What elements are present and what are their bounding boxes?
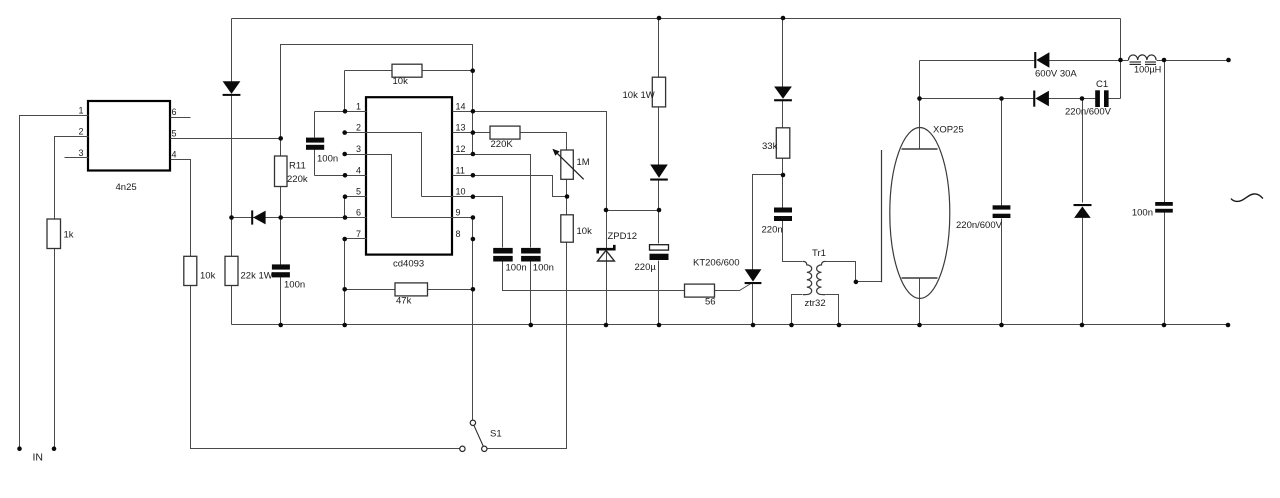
junction R11 bottom / diode row xyxy=(278,215,283,220)
svg-text:100n: 100n xyxy=(533,263,554,274)
capacitor 220n (x=783, trigger) xyxy=(774,208,792,222)
pin numbers 4n25 right xyxy=(172,107,177,159)
wire: 47k row y=289.3 xyxy=(345,289,473,291)
label 10k left xyxy=(200,271,216,282)
wire: 4n25 pin3 open stub xyxy=(65,157,89,159)
wire: 10k feedback row y=70.7 xyxy=(345,71,473,112)
junction pin1 xyxy=(343,109,348,114)
svg-text:100n: 100n xyxy=(506,263,527,274)
svg-text:14: 14 xyxy=(456,101,466,111)
wire: R11/100n column x=280.7 to bottom bus xyxy=(280,139,282,325)
diode D5 600V 30A (row1, pointing left) xyxy=(1034,52,1049,68)
wire: right rail pins 9-8 down to 47k and switch S1 xyxy=(472,218,474,421)
svg-text:9: 9 xyxy=(456,208,461,218)
junction 100n x=530.8 at ground bus xyxy=(529,323,534,328)
label 100uH xyxy=(1134,64,1161,74)
pin numbers 4n25 left xyxy=(78,105,83,157)
junction pin13 xyxy=(471,130,476,135)
junction 100n at ground bus x=280.7 xyxy=(278,323,283,328)
transformer Tr1 secondary winding xyxy=(817,261,826,294)
junction 1M wiper node xyxy=(565,194,570,199)
svg-text:3: 3 xyxy=(78,148,83,158)
svg-text:1M: 1M xyxy=(577,157,590,168)
svg-text:12: 12 xyxy=(456,144,466,154)
svg-text:6: 6 xyxy=(172,107,177,117)
switch S1 xyxy=(460,420,487,451)
wire: pin14 row to ZPD12 rail xyxy=(453,112,607,211)
label 100n output xyxy=(1132,208,1153,219)
svg-text:220n/600V: 220n/600V xyxy=(956,220,1003,231)
capacitor C1 220n/600V (vertical plates) xyxy=(1095,90,1108,107)
svg-text:100n: 100n xyxy=(1132,208,1153,219)
flash tube XOP25 electrodes xyxy=(902,149,938,278)
svg-text:47k: 47k xyxy=(396,296,412,307)
junction left rail at ground bus xyxy=(342,323,347,328)
junction pin4 xyxy=(343,173,348,178)
wire: 56 resistor to thyristor gate xyxy=(715,283,753,291)
svg-text:1: 1 xyxy=(78,105,83,115)
junction 33k bottom / thyristor branch xyxy=(781,173,786,178)
svg-text:100n: 100n xyxy=(317,153,338,164)
wire: 10k 1W column x=659 top bus to ZPD node xyxy=(658,19,660,211)
svg-text:4: 4 xyxy=(172,150,177,160)
svg-text:220k: 220k xyxy=(287,174,308,185)
label 220u xyxy=(635,262,657,273)
junction 10k 1W at top bus xyxy=(657,16,662,21)
wire: pin12 stub to 100n drop x=530.8 xyxy=(453,155,531,248)
resistor 10k (top feedback) xyxy=(392,64,422,77)
svg-text:220K: 220K xyxy=(491,139,514,150)
svg-text:10: 10 xyxy=(456,187,466,197)
junction pin3 xyxy=(342,152,347,157)
svg-text:100n: 100n xyxy=(284,280,305,291)
junction 220n/600V top xyxy=(999,96,1004,101)
wire: diode row pin6 level y=217.5 xyxy=(232,217,367,219)
junction pin7 xyxy=(342,237,347,242)
resistor 10k (below 1M pot) xyxy=(561,215,574,242)
junction pin2 xyxy=(342,130,347,135)
wire: pin3 stub and through-box link to pin9 xyxy=(345,155,392,218)
label 220n xyxy=(762,225,783,236)
junction pin11 xyxy=(471,173,476,178)
wire: pin13 stub xyxy=(453,132,491,134)
label S1 xyxy=(490,429,502,440)
svg-text:220n/600V: 220n/600V xyxy=(1065,107,1112,118)
capacitor 220n/600V (x=1001.5) xyxy=(993,205,1011,218)
wire: Tr1 secondary bottom to bus xyxy=(826,295,839,325)
label Tr1 xyxy=(812,248,826,259)
wire: pin5-pin6 tie on left rail xyxy=(345,197,367,218)
label 220n/600V lamp cap xyxy=(956,220,1003,231)
svg-text:10k 1W: 10k 1W xyxy=(623,90,655,101)
wire: row2 diode / C1 line y=98.5 xyxy=(920,98,1121,100)
wire: Tr1 primary bottom to bus xyxy=(792,295,803,325)
svg-text:C1: C1 xyxy=(1096,79,1108,90)
wire: bottom ground bus xyxy=(232,324,1229,326)
label ztr32 xyxy=(805,298,826,309)
label 220K xyxy=(491,139,514,150)
junction trigger wire corner xyxy=(854,280,859,285)
junction diode D7 at ground bus xyxy=(1080,323,1085,328)
svg-text:cd4093: cd4093 xyxy=(393,259,424,270)
transformer Tr1 primary winding xyxy=(803,261,812,294)
wire: ZPD12 rail x=606 to bottom bus xyxy=(606,211,608,325)
label XOP25 xyxy=(933,125,964,136)
svg-text:3: 3 xyxy=(356,144,361,154)
wire: 4n25 pin5 to R11 top node xyxy=(171,138,281,140)
svg-text:10k: 10k xyxy=(577,226,593,237)
svg-text:IN: IN xyxy=(33,452,44,464)
wire: Tr1 secondary top to trigger electrode xyxy=(826,262,882,282)
flash tube trigger electrode xyxy=(881,150,883,282)
junction pin5 xyxy=(343,194,348,199)
wire: 33k column x=783 top bus down to 220n xyxy=(782,19,784,208)
label 220k xyxy=(287,174,308,185)
wire: 4n25 pin4 down through 10k to switch S1 left contact xyxy=(171,160,460,449)
capacitor 100n (x=503) xyxy=(493,248,513,262)
capacitor 100n (x=1164, output) xyxy=(1155,202,1173,213)
label 1k xyxy=(64,230,74,241)
diode D3 (x=659 below 10k 1W, pointing down) xyxy=(650,165,668,181)
wire: pin2 stub and through-box link to pin10 xyxy=(345,133,422,197)
svg-text:KT206/600: KT206/600 xyxy=(693,258,739,269)
label 100n x=530.8 xyxy=(533,263,554,274)
svg-text:S1: S1 xyxy=(490,429,502,440)
wire: top supply bus xyxy=(232,18,1121,20)
svg-text:ztr32: ztr32 xyxy=(805,298,826,309)
diode D4 (x=783 below top bus, pointing down) xyxy=(774,87,792,102)
wire: row1 600V diode / inductor line y=60 xyxy=(920,60,1229,62)
wire: sub-bus y=44.4 from R11 node to pin14 rail xyxy=(281,45,473,139)
label 10k pot xyxy=(577,226,593,237)
potentiometer 1M body xyxy=(561,150,574,179)
label 47k xyxy=(396,296,412,307)
svg-text:1k: 1k xyxy=(64,230,74,241)
wire: right rail x=472.9 pins 14-13-12 xyxy=(472,112,474,155)
label 220n/600V C1 xyxy=(1065,107,1112,118)
diode D6 (row2, pointing left) xyxy=(1033,91,1049,107)
capacitor 220u electrolytic xyxy=(650,245,669,260)
junction diode D7 top xyxy=(1080,96,1085,101)
label IN xyxy=(33,452,44,464)
node output terminal bottom xyxy=(1226,323,1231,328)
node IN terminal left xyxy=(17,446,22,451)
svg-text:XOP25: XOP25 xyxy=(933,125,964,136)
junction 10k feedback right xyxy=(470,68,475,73)
wire: 1M bottom to node xyxy=(566,180,568,215)
svg-text:6: 6 xyxy=(356,208,361,218)
svg-text:220µ: 220µ xyxy=(635,262,657,273)
wire: lamp anode row1 left drop x=919.5 xyxy=(919,61,921,149)
flash tube XOP25 envelope xyxy=(890,128,950,299)
pin numbers cd4093 left xyxy=(356,101,361,239)
resistor 22k 1W xyxy=(225,256,238,285)
label KT206/600 xyxy=(693,258,739,269)
junction 100n at ground bus xyxy=(1162,323,1167,328)
inductor 100uH xyxy=(1129,55,1157,65)
svg-text:5: 5 xyxy=(356,187,361,197)
wire: freewheel diode column x=1082 xyxy=(1082,99,1084,325)
label 100n below R11 xyxy=(284,280,305,291)
wire: thyristor anode branch y=175 xyxy=(753,175,783,270)
junction pin6 xyxy=(343,215,348,220)
diode D1 (top left rail, pointing down) xyxy=(223,81,241,96)
junction Tr1 primary at ground bus xyxy=(789,323,794,328)
resistor 1k xyxy=(47,219,61,249)
node IN terminal right xyxy=(52,446,57,451)
svg-text:33k: 33k xyxy=(762,141,778,152)
node output terminal top xyxy=(1226,58,1231,63)
wire: 10k below pot down to S1 right contact xyxy=(487,243,567,449)
label ZPD12 xyxy=(608,231,638,242)
wire: output 100n column x=1164 xyxy=(1164,61,1166,325)
resistor 33k xyxy=(776,128,790,158)
svg-text:1: 1 xyxy=(356,101,361,111)
junction pin9 xyxy=(471,215,476,220)
junction top bus drop at row1 xyxy=(1118,58,1123,63)
svg-text:22k 1W: 22k 1W xyxy=(241,271,273,282)
resistor R11 220k xyxy=(275,156,288,187)
junction inductor right / 100n top xyxy=(1162,58,1167,63)
diode D2 (pin6 row, pointing left) xyxy=(251,210,265,224)
label 1M xyxy=(577,157,590,168)
wire: pin11 stub to 1M wiper node xyxy=(453,176,567,197)
diode D7 (x=1082, pointing up) xyxy=(1074,204,1092,218)
junction 220u top node xyxy=(657,208,662,213)
resistor 220K xyxy=(490,126,520,139)
label 10k top xyxy=(393,76,409,87)
junction thyristor at ground bus xyxy=(751,323,756,328)
wire: IN left lead to 4n25 pin1 xyxy=(20,116,89,449)
junction 220n/600V at ground bus xyxy=(999,323,1004,328)
junction ZPD12 top xyxy=(604,208,609,213)
svg-text:4: 4 xyxy=(356,165,361,175)
opto-coupler U1 4n25 body xyxy=(88,101,170,171)
wire: lamp cathode to bottom bus xyxy=(919,279,921,325)
wire: 100n x=503 bottom to 56 gate row xyxy=(503,262,685,291)
svg-text:220n: 220n xyxy=(762,225,783,236)
label 100n x=503 xyxy=(506,263,527,274)
svg-text:10k: 10k xyxy=(393,76,409,87)
junction R11 top node xyxy=(278,136,283,141)
svg-text:ZPD12: ZPD12 xyxy=(608,231,638,242)
wire: 220n bottom to Tr1 primary top xyxy=(783,221,803,262)
wire: left rail x=231.5 with series diode to bottom bus xyxy=(231,19,233,325)
svg-text:4n25: 4n25 xyxy=(116,182,137,193)
zener diode ZPD12 xyxy=(598,245,615,261)
junction pin8 xyxy=(471,237,476,242)
label 33k xyxy=(762,141,778,152)
junction 47k left xyxy=(342,287,347,292)
wire: 100n x=530.8 bottom to bus xyxy=(530,262,532,325)
thyristor KT206/600 xyxy=(745,269,762,284)
svg-text:56: 56 xyxy=(705,297,716,308)
junction 33k column at top bus xyxy=(781,16,786,21)
wire: 220K output to 1M top xyxy=(521,133,567,151)
junction lamp anode row2 xyxy=(917,96,922,101)
svg-text:13: 13 xyxy=(456,123,466,133)
junction pin12 xyxy=(471,152,476,157)
wire: 220u column x=659 node to bottom bus xyxy=(658,211,660,325)
label 600V 30A xyxy=(1035,69,1077,80)
capacitor 100n (x=530.8) xyxy=(521,248,541,262)
wire: IN right lead to 1k and 4n25 pin2 xyxy=(55,137,89,449)
resistor 10k 1W xyxy=(652,77,665,107)
svg-text:7: 7 xyxy=(356,229,361,239)
IC U2 cd4093 body xyxy=(366,97,452,254)
junction lamp cathode at ground bus xyxy=(917,323,922,328)
wire: 100n cap x=315 between pin1 and pin4 rows xyxy=(314,112,316,176)
capacitor 100n (x=280.7, below R11) xyxy=(272,264,290,277)
resistor 47k xyxy=(395,283,428,296)
AC output squiggle xyxy=(1231,194,1263,201)
junction diode row x=231.5 xyxy=(229,215,234,220)
wire: top bus drop x=1120.5 xyxy=(1120,19,1122,99)
junction pin14 xyxy=(471,109,476,114)
label 100n x=315 xyxy=(317,153,338,164)
wire: 220n/600V column x=1001.5 xyxy=(1001,99,1003,325)
svg-text:5: 5 xyxy=(172,128,177,138)
wire: pin7 stub and drop to 47k and bottom bus xyxy=(345,239,367,325)
resistor 56 xyxy=(685,284,715,297)
junction pin10 xyxy=(471,194,476,199)
wire: pin4 row xyxy=(315,175,367,177)
svg-text:100µH: 100µH xyxy=(1134,64,1161,74)
svg-text:600V 30A: 600V 30A xyxy=(1035,69,1077,80)
label 56 xyxy=(705,297,716,308)
junction Tr1 secondary at ground bus xyxy=(837,323,842,328)
wire: pin1 row with 100n branch xyxy=(315,111,367,113)
junction 47k right xyxy=(471,287,476,292)
svg-text:2: 2 xyxy=(78,127,83,137)
svg-text:10k: 10k xyxy=(200,271,216,282)
wire: pin9 row inside box to right rail xyxy=(392,217,473,219)
wire: ZPD12 node row y=210 xyxy=(607,210,659,212)
label 4n25 xyxy=(116,182,137,193)
label R11 xyxy=(289,160,306,171)
potentiometer 1M arrow xyxy=(552,149,583,180)
junction ZPD12 at ground bus xyxy=(604,323,609,328)
svg-text:R11: R11 xyxy=(289,160,306,171)
wire: thyristor cathode to bottom bus xyxy=(752,283,754,325)
label 22k 1W xyxy=(241,271,273,282)
label cd4093 xyxy=(393,259,424,270)
label C1 xyxy=(1096,79,1108,90)
svg-text:2: 2 xyxy=(356,123,361,133)
resistor 10k (left, below 4n25 pin4) xyxy=(184,256,197,285)
svg-text:8: 8 xyxy=(456,229,461,239)
svg-text:11: 11 xyxy=(456,165,465,175)
wire: pin10 row to 100n drop x=503 xyxy=(422,197,503,248)
junction 220u at ground bus xyxy=(657,323,662,328)
svg-text:Tr1: Tr1 xyxy=(812,248,826,259)
capacitor 100n (x=315, pins 1-4) xyxy=(306,138,324,150)
pin numbers cd4093 right xyxy=(456,101,466,239)
wire: 4n25 pin6 open stub xyxy=(171,117,191,119)
label 10k 1W xyxy=(623,90,655,101)
